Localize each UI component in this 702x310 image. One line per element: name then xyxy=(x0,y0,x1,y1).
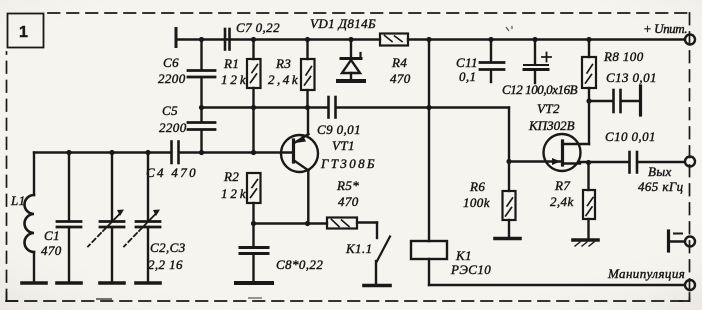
svg-text:VТ1: VТ1 xyxy=(332,138,355,153)
resistor R4 470 xyxy=(380,34,411,87)
junction dot R1-R2 crossing xyxy=(251,105,256,110)
resistor R8 100 xyxy=(582,40,644,145)
svg-text:R1: R1 xyxy=(223,56,239,71)
variable capacitor C2 xyxy=(88,153,124,282)
svg-text:12k: 12k xyxy=(221,72,246,87)
transistor VT2 KP302V field-effect xyxy=(509,101,589,171)
stray scan marks xyxy=(96,26,512,299)
junction dot C6-C5 tap xyxy=(199,105,204,110)
junction dot R8 top xyxy=(586,37,591,42)
relay K1 RES10 xyxy=(411,241,491,285)
svg-text:С13 0,01: С13 0,01 xyxy=(606,70,657,85)
wire VT2 source output line xyxy=(580,161,628,163)
junction dot R7 top xyxy=(586,160,591,165)
wire manipulation line xyxy=(429,284,685,286)
svg-text:465 кГц: 465 кГц xyxy=(638,179,684,194)
svg-text:R4: R4 xyxy=(391,55,407,70)
svg-text:С10 0,01: С10 0,01 xyxy=(605,129,656,144)
capacitor C4 470 xyxy=(146,142,196,181)
resistor R2 12k xyxy=(221,169,261,224)
svg-text:VD1 Д814Б: VD1 Д814Б xyxy=(310,16,376,31)
junction dot C3 top xyxy=(145,150,150,155)
svg-text:С12 100,0х16В: С12 100,0х16В xyxy=(502,82,578,97)
node output terminal Vykh 465 kHz xyxy=(638,157,695,195)
wire tank top line xyxy=(34,151,170,153)
svg-text:Вых: Вых xyxy=(648,164,672,179)
svg-text:1: 1 xyxy=(19,24,28,41)
svg-text:КП302В: КП302В xyxy=(528,118,575,133)
svg-text:470: 470 xyxy=(338,194,359,209)
svg-text:+ Uпит.: + Uпит. xyxy=(643,21,688,36)
svg-text:0,1: 0,1 xyxy=(459,69,476,84)
switch contact K1.1 xyxy=(345,223,390,285)
resistor R3 2,4k xyxy=(268,40,315,108)
variable capacitor C3 xyxy=(124,153,186,282)
svg-text:С7 0,22: С7 0,22 xyxy=(236,20,280,35)
svg-text:С5: С5 xyxy=(162,103,178,118)
junction dot R2 bottom xyxy=(251,221,256,226)
svg-text:2200: 2200 xyxy=(158,71,186,86)
wire oscillator collector-feedback line xyxy=(202,106,328,108)
svg-text:С8*0,22: С8*0,22 xyxy=(276,257,323,272)
resistor R1 12k xyxy=(221,40,261,153)
ground bar under R6 xyxy=(495,237,520,241)
ground bar under C2 xyxy=(100,281,124,285)
svg-text:R8 100: R8 100 xyxy=(603,49,644,64)
capacitor C10 0,01 xyxy=(605,129,685,173)
ground bar under K1.1 xyxy=(364,284,390,288)
resistor R6 100k xyxy=(463,162,516,238)
svg-text:С9 0,01: С9 0,01 xyxy=(317,122,361,137)
svg-text:VТ2: VТ2 xyxy=(537,101,560,116)
resistor R7 2,4k xyxy=(550,163,595,239)
svg-text:470: 470 xyxy=(390,71,411,86)
svg-text:РЭС10: РЭС10 xyxy=(450,262,491,277)
svg-text:2,4k: 2,4k xyxy=(268,72,298,87)
ground bar under C8 xyxy=(236,281,272,285)
svg-text:2,4k: 2,4k xyxy=(550,194,574,209)
junction dot C13 tap on drain lead xyxy=(586,98,591,103)
wire gate feed from oscillator xyxy=(429,106,509,108)
node manipulation terminal xyxy=(607,266,695,290)
node common terminal minus xyxy=(669,231,696,251)
ground bar under VD1 xyxy=(338,79,364,83)
junction dot R2 top / base xyxy=(251,150,256,155)
junction dot C5 bottom xyxy=(199,150,204,155)
svg-text:2200: 2200 xyxy=(159,120,187,135)
wire top supply rail right section xyxy=(408,38,685,40)
svg-text:С11: С11 xyxy=(456,55,478,70)
svg-text:С1: С1 xyxy=(44,228,60,243)
junction dot relay branch crossing oscillator wire xyxy=(426,105,431,110)
svg-text:С2,С3: С2,С3 xyxy=(150,240,186,255)
svg-text:К1.1: К1.1 xyxy=(345,241,372,256)
junction dot R6 top / gate xyxy=(506,159,511,164)
svg-text:R6: R6 xyxy=(469,179,485,194)
junction dot R1 top xyxy=(251,37,256,42)
svg-text:Манипуляция: Манипуляция xyxy=(607,266,685,281)
svg-text:R7: R7 xyxy=(554,178,570,193)
svg-text:R2: R2 xyxy=(223,169,239,184)
resistor R5 470 xyxy=(327,178,359,229)
svg-text:R3: R3 xyxy=(275,56,291,71)
junction dot VD1 anode rail xyxy=(348,37,353,42)
zener diode VD1 D814B xyxy=(310,16,376,79)
junction dot C11 top xyxy=(488,37,493,42)
capacitor C9 0,01 xyxy=(317,97,361,137)
junction dot C2 top xyxy=(109,150,114,155)
capacitor C7 0,22 xyxy=(225,20,280,50)
ground bar under R7 xyxy=(573,240,598,246)
svg-text:С4 470: С4 470 xyxy=(146,165,196,180)
junction dot relay branch xyxy=(426,37,431,42)
junction dot VT1 emitter top xyxy=(305,105,310,110)
wire collector line to R5 xyxy=(254,222,328,224)
node terminal bar at left end of supply rail xyxy=(175,29,178,47)
svg-text:R5*: R5* xyxy=(336,178,359,193)
svg-text:100k: 100k xyxy=(463,195,490,210)
svg-text:2,2 16: 2,2 16 xyxy=(148,257,183,272)
wire base line from tank xyxy=(180,151,293,153)
wire top supply rail left section xyxy=(176,38,380,40)
frame corner label 1 xyxy=(8,14,44,48)
wire relay branch vertical xyxy=(428,40,430,242)
capacitor C8 0,22 xyxy=(240,224,323,282)
inductor L1 xyxy=(10,153,34,282)
junction dot C1 top xyxy=(66,150,71,155)
junction dot C12 top xyxy=(532,37,537,42)
ground bar under C1 xyxy=(57,281,81,285)
ground bar under L1 xyxy=(22,281,46,285)
junction dot R3 top xyxy=(305,37,310,42)
capacitor C1 470 xyxy=(41,153,81,282)
svg-text:L1: L1 xyxy=(10,193,26,208)
junction dot C6 top xyxy=(199,37,204,42)
capacitor C5 2200 xyxy=(159,103,215,153)
svg-text:С6: С6 xyxy=(163,55,179,70)
junction dot VT1 collector bottom xyxy=(305,221,310,226)
capacitor C6 2200 xyxy=(158,40,215,108)
svg-text:12k: 12k xyxy=(221,186,246,201)
capacitor C11 0,1 xyxy=(456,40,504,85)
svg-text:470: 470 xyxy=(41,243,62,258)
capacitor C12 100,0x16V electrolytic xyxy=(502,40,578,98)
capacitor C13 0,01 xyxy=(589,70,657,115)
node +Upit terminal xyxy=(685,35,695,45)
transistor VT1 GT308B xyxy=(281,108,375,224)
ground bar under C3 xyxy=(136,281,160,285)
svg-text:К1: К1 xyxy=(455,248,472,263)
